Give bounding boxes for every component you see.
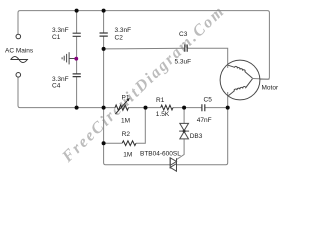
svg-text:3.3nF: 3.3nF: [52, 27, 69, 34]
capacitor C3: [185, 45, 187, 52]
junction node top C1: [75, 9, 79, 13]
svg-text:C5: C5: [204, 97, 213, 104]
svg-text:FreeCircuitDiagram.Com: FreeCircuitDiagram.Com: [58, 2, 229, 167]
wire lower rail C5-motor segment: [205, 107, 228, 109]
capacitor C5: [202, 104, 205, 111]
wire node C2-C3 mid line: [104, 47, 185, 50]
svg-text:1.5K: 1.5K: [156, 111, 170, 118]
svg-text:1M: 1M: [121, 118, 130, 125]
svg-text:3.3nF: 3.3nF: [115, 27, 132, 34]
junction node motor bottom: [226, 106, 230, 110]
wire R2 branch: [104, 108, 146, 144]
resistor R2: [122, 141, 136, 146]
svg-text:DB3: DB3: [190, 133, 203, 140]
svg-text:P1: P1: [122, 95, 130, 102]
junction node C2 mid: [102, 47, 106, 51]
triac BTB04-600SL: [170, 158, 176, 172]
junction node top C2: [102, 9, 106, 13]
junction node P1 left: [102, 106, 106, 110]
diac DB3: [179, 123, 189, 138]
wire motor bottom vertical: [177, 92, 228, 165]
svg-text:R2: R2: [122, 131, 131, 138]
capacitor C4: [73, 74, 81, 77]
wire DB3 branch: [177, 108, 185, 160]
junction node C4 bottom: [75, 106, 79, 110]
svg-text:C2: C2: [115, 35, 124, 42]
AC source V1: [10, 34, 28, 77]
capacitor C1: [73, 33, 81, 36]
junction node R2 left: [102, 141, 106, 145]
wire top rail: [18, 11, 269, 80]
wire lower rail R1-C5 segment: [173, 107, 202, 109]
svg-text:Motor: Motor: [262, 85, 279, 92]
svg-text:C1: C1: [52, 34, 61, 41]
wire C1 branch vertical: [76, 11, 78, 108]
svg-text:47nF: 47nF: [197, 117, 212, 124]
svg-text:R1: R1: [156, 97, 165, 104]
svg-text:AC Mains: AC Mains: [5, 48, 34, 55]
svg-text:1M: 1M: [123, 152, 132, 159]
svg-text:5.3uF: 5.3uF: [175, 59, 192, 66]
wire C2 branch vertical: [103, 11, 105, 108]
junction node R1 right: [182, 106, 186, 110]
junction node P1 right: [144, 106, 148, 110]
wire C3 to motor top: [187, 48, 227, 68]
motor M: [220, 60, 260, 100]
svg-text:C3: C3: [179, 31, 188, 38]
wire bottom rail left of triac: [104, 108, 171, 165]
wire motor to right rail: [253, 78, 270, 81]
svg-text:C4: C4: [52, 83, 61, 90]
wire lower rail P1-R1 segment: [129, 107, 161, 109]
wire AC bottom to lower rail: [18, 77, 115, 107]
junction node ground magenta: [74, 57, 78, 61]
resistor R1: [161, 105, 173, 110]
ground: [62, 52, 76, 64]
potentiometer P1: [115, 100, 129, 114]
svg-text:BTB04-600SL: BTB04-600SL: [140, 151, 181, 158]
capacitor C2: [100, 33, 108, 36]
